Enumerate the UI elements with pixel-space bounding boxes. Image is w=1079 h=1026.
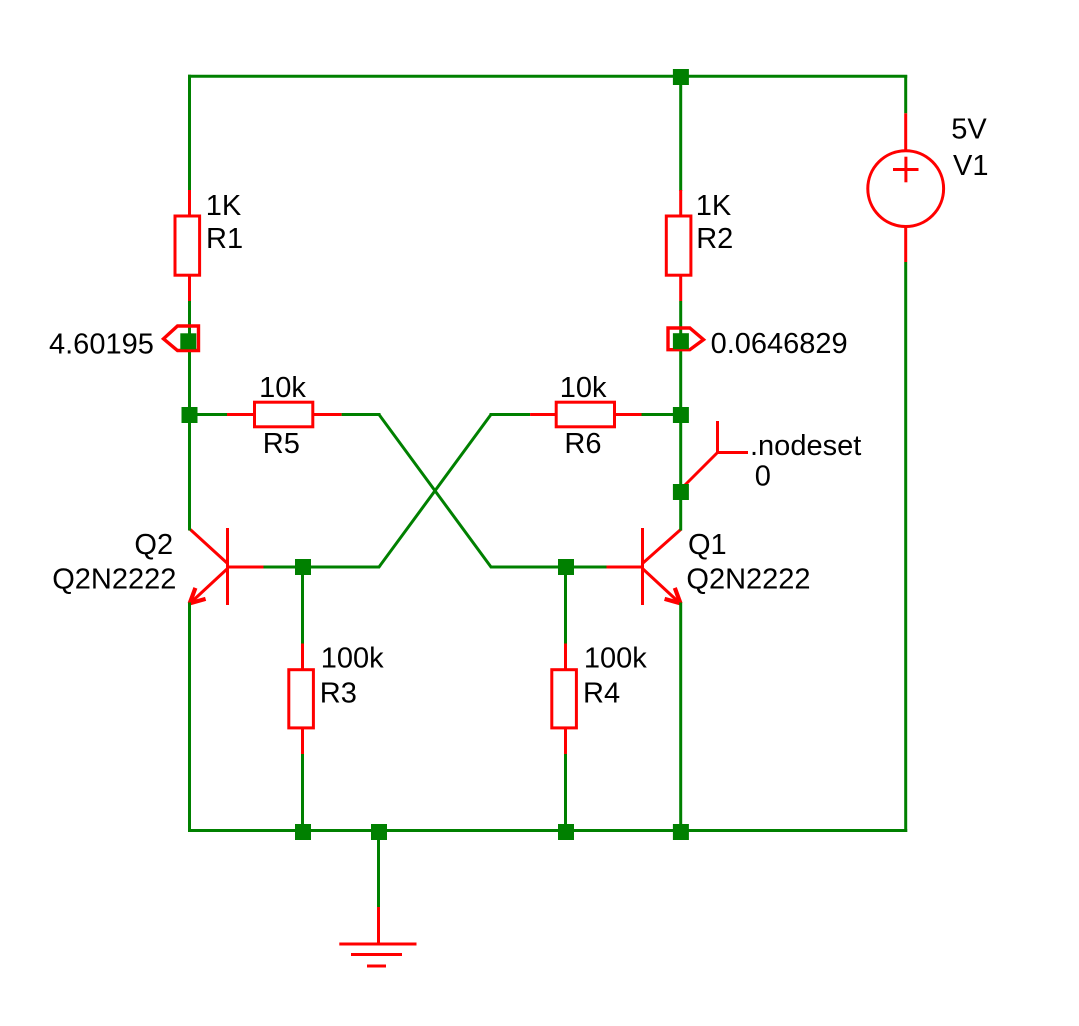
wire left column R1 to R5 junction	[188, 301, 191, 416]
svg-text:Q1: Q1	[688, 529, 727, 561]
resistor R1	[175, 190, 243, 301]
resistor R4	[552, 567, 647, 831]
svg-text:1K: 1K	[696, 190, 732, 222]
svg-text:R2: R2	[696, 223, 733, 255]
voltage flag 0.0646829 (right node marker)	[668, 328, 848, 360]
junction bottom rail / R4	[558, 824, 574, 840]
svg-text:0: 0	[755, 461, 771, 493]
wire top rail	[188, 75, 907, 78]
ground	[339, 907, 416, 966]
wire right rail top	[904, 75, 907, 113]
svg-text:R5: R5	[263, 428, 300, 460]
svg-text:Q2: Q2	[134, 529, 173, 561]
junction left column / R5	[182, 407, 198, 423]
resistor R3	[289, 567, 384, 831]
svg-text:100k: 100k	[321, 643, 384, 675]
junction bottom rail / Q1 emitter	[673, 824, 689, 840]
wire Q1 collector	[679, 492, 682, 531]
wire diagonal R5 row to Q1 base row	[379, 415, 567, 568]
svg-text:R3: R3	[320, 677, 357, 709]
svg-text:R4: R4	[583, 677, 620, 709]
junction bottom rail / ground	[371, 824, 387, 840]
wire R6 to R2 column	[642, 413, 683, 416]
junction top rail / R2 column	[673, 69, 689, 85]
svg-text:Q2N2222: Q2N2222	[52, 564, 176, 596]
svg-text:1K: 1K	[206, 190, 242, 222]
wire R5 to cross corner	[342, 413, 381, 416]
wire bottom rail	[188, 829, 907, 832]
svg-text:R6: R6	[564, 428, 601, 460]
voltage flag 4.60195 (left node marker)	[49, 326, 199, 361]
svg-text:0.0646829: 0.0646829	[711, 328, 848, 360]
wire Q1 base to junction	[566, 566, 607, 569]
wire diagonal R6 row to Q2 base row	[302, 415, 491, 568]
voltage source V1	[868, 113, 989, 262]
junction R6 / R2 column	[673, 407, 689, 423]
wire Q2 emitter down to ground rail	[188, 603, 191, 833]
junction Q2 base / R3	[295, 559, 311, 575]
wire Q2 collector	[188, 415, 191, 531]
wire Q2 base to junction	[264, 566, 304, 569]
svg-text:V1: V1	[953, 150, 988, 182]
svg-text:10k: 10k	[560, 372, 607, 404]
wire R2 to R6 junction	[679, 301, 682, 416]
svg-text:10k: 10k	[259, 372, 306, 404]
svg-text:Q2N2222: Q2N2222	[686, 564, 810, 596]
wire R2 column junction to nodeset junction	[679, 415, 682, 493]
resistor R2	[666, 75, 733, 301]
svg-text:5V: 5V	[951, 114, 987, 146]
nodeset flag	[683, 421, 861, 493]
transistor Q1	[607, 528, 811, 605]
svg-text:4.60195: 4.60195	[49, 329, 154, 361]
svg-text:R1: R1	[206, 223, 243, 255]
junction nodeset node	[673, 484, 689, 500]
wire ground stem	[377, 831, 380, 908]
resistor R6	[490, 372, 642, 460]
wire right rail bottom	[904, 262, 907, 832]
svg-text:.nodeset: .nodeset	[750, 430, 861, 462]
wire left rail upper	[188, 75, 191, 191]
resistor R5	[190, 372, 342, 460]
transistor Q2	[52, 528, 263, 605]
junction Q1 base / R4	[558, 559, 574, 575]
svg-text:100k: 100k	[584, 643, 647, 675]
wire Q1 emitter down to ground rail	[679, 603, 682, 833]
junction bottom rail / R3	[295, 824, 311, 840]
